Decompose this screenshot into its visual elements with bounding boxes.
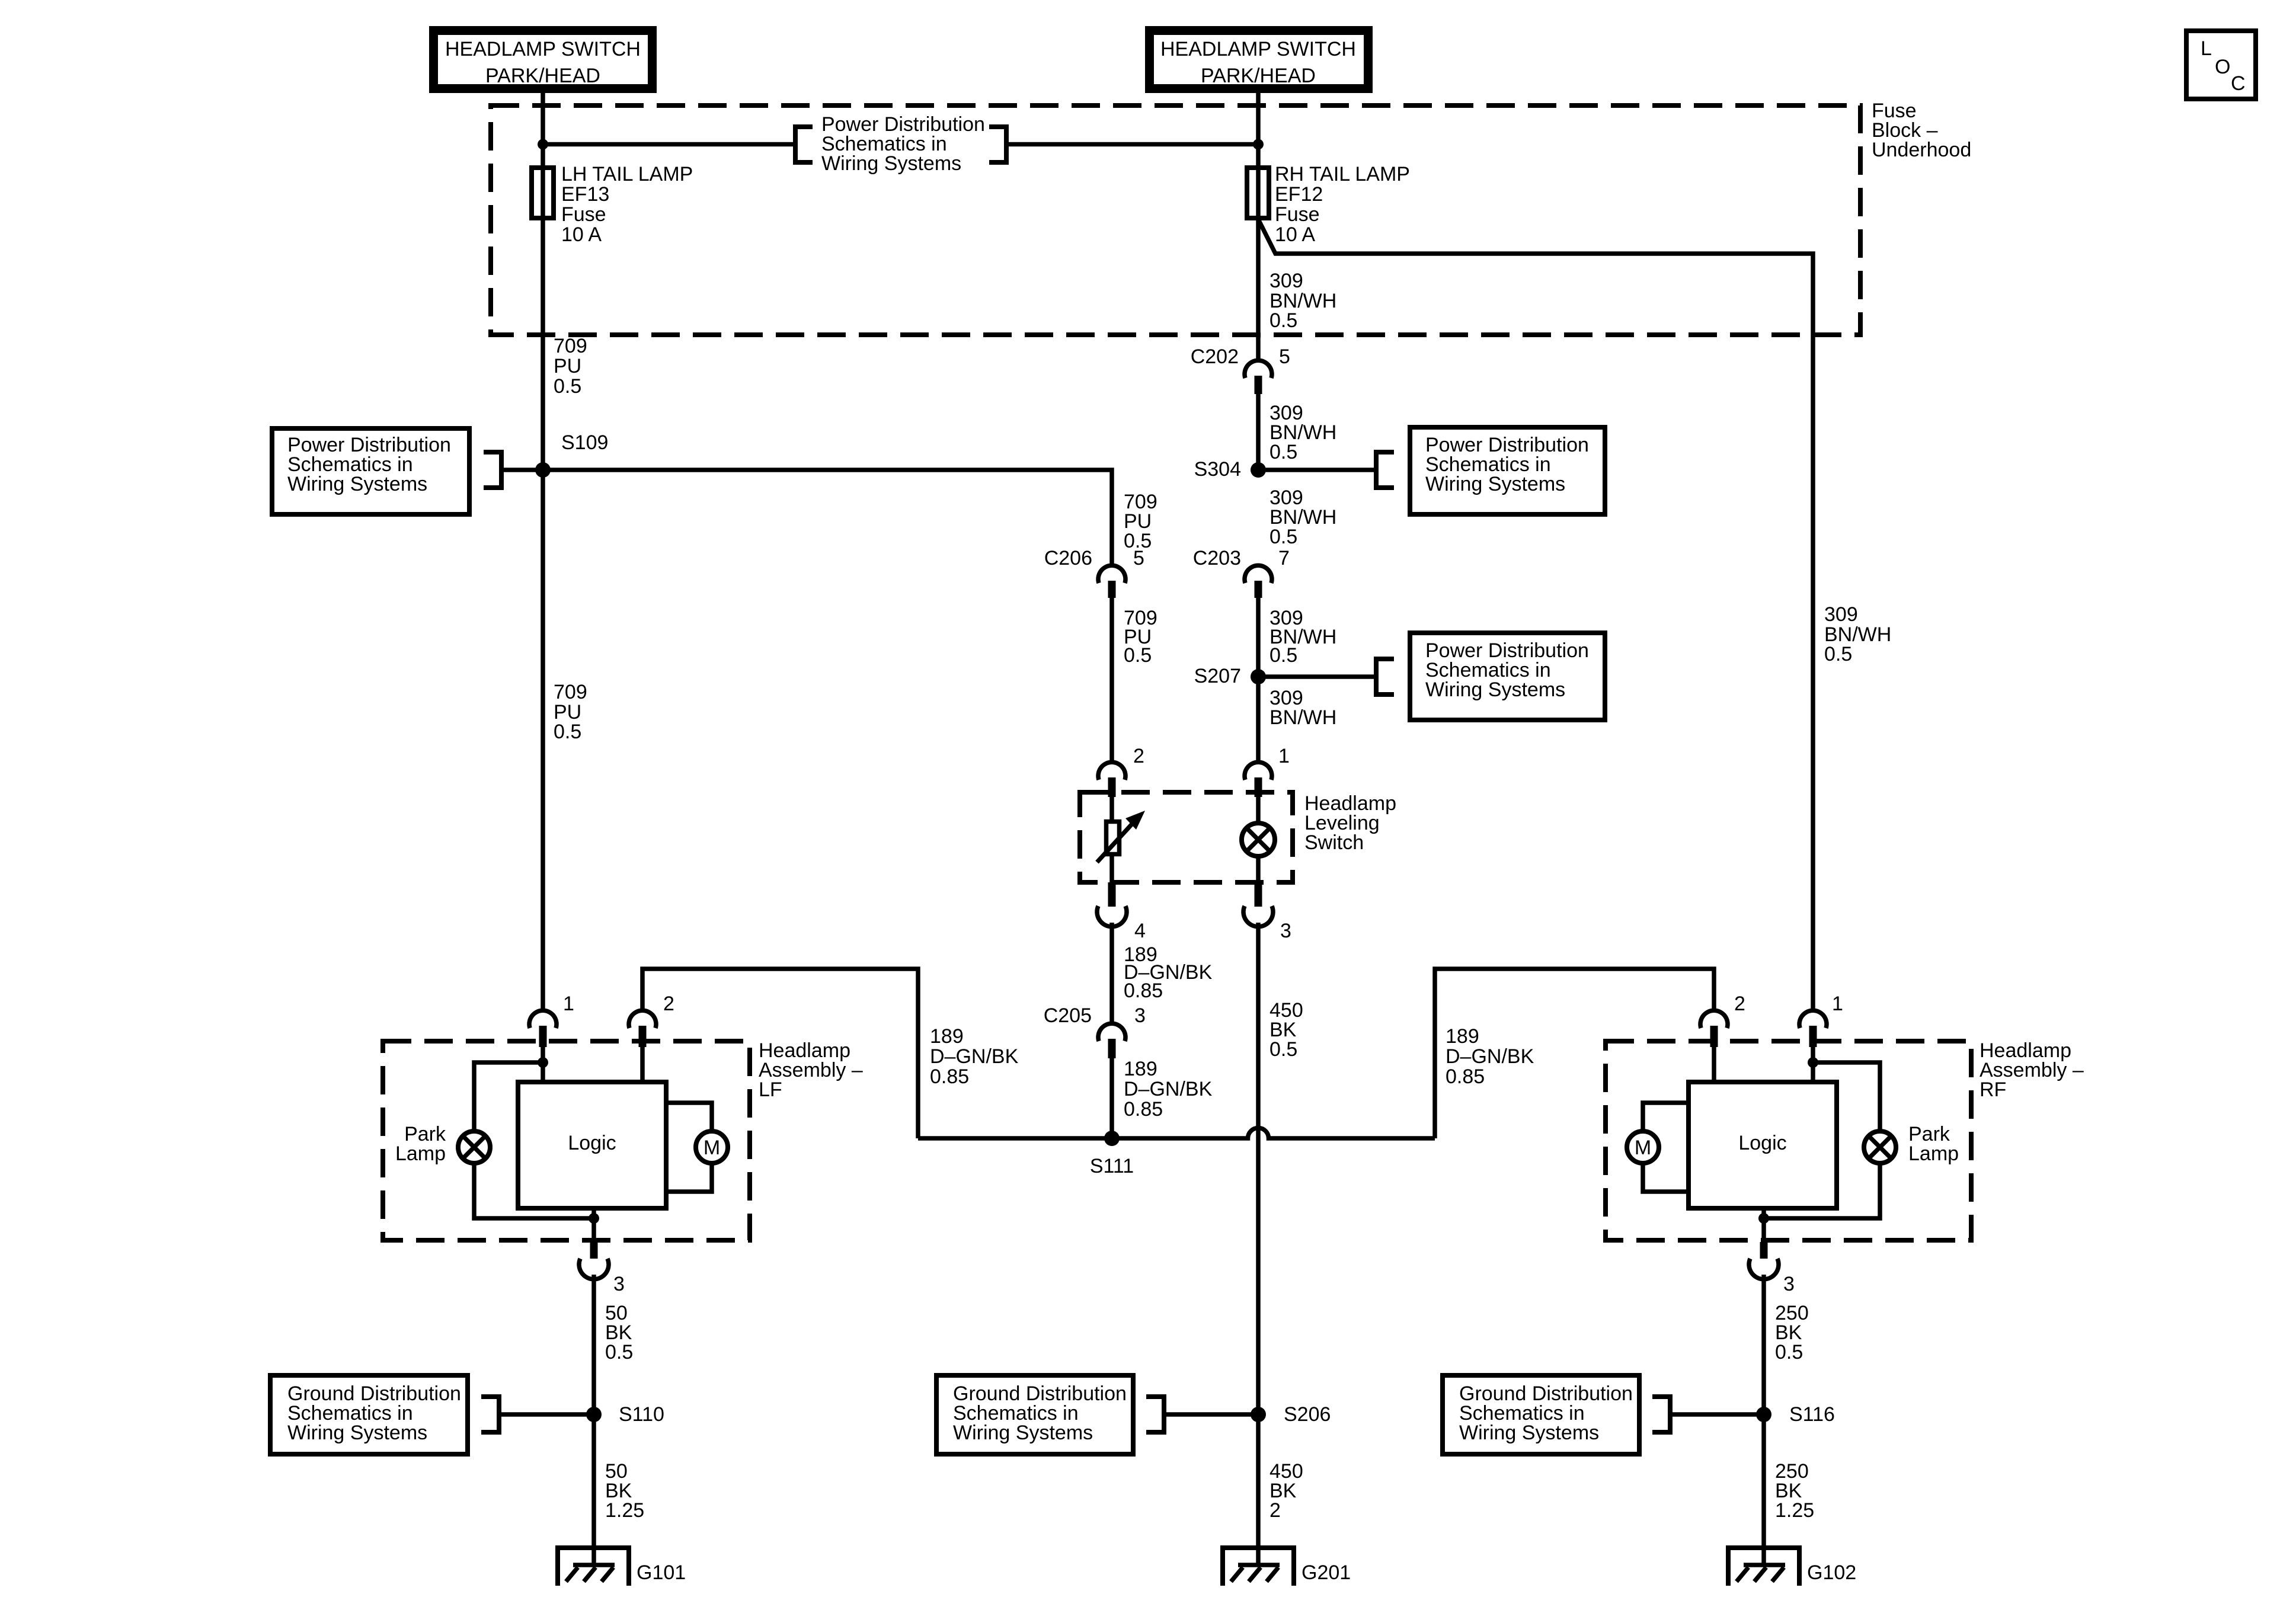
wire: middle feed from switch through fuse EF12 down to C202 xyxy=(1256,93,1261,361)
wire: park lamp LF to ground leg xyxy=(474,1163,594,1218)
box: Ground Distribution Schematics in Wiring Systems (S110) xyxy=(270,1375,468,1454)
svg-text:1: 1 xyxy=(1278,745,1290,767)
svg-text:5: 5 xyxy=(1279,345,1290,368)
box: Ground Distribution Schematics in Wiring Systems (S116) xyxy=(1443,1375,1639,1454)
svg-text:RF: RF xyxy=(1980,1078,2006,1101)
svg-text:1.25: 1.25 xyxy=(1775,1499,1814,1522)
svg-text:0.5: 0.5 xyxy=(1824,643,1852,665)
svg-text:LF: LF xyxy=(759,1078,782,1101)
wire: 309 BN/WH from C202 to S304 xyxy=(1256,394,1261,470)
svg-text:2: 2 xyxy=(1734,993,1745,1015)
fuse EF13 LH TAIL LAMP 10A xyxy=(532,168,554,218)
svg-text:Wiring Systems: Wiring Systems xyxy=(1425,678,1565,701)
svg-text:M: M xyxy=(703,1137,720,1159)
connector C206 pin 5 xyxy=(1044,547,1144,598)
box: Power Distribution Schematics in Wiring Systems (S207) xyxy=(1410,633,1605,720)
svg-text:0.5: 0.5 xyxy=(1124,644,1152,667)
svg-text:Lamp: Lamp xyxy=(395,1142,446,1165)
wire: 189 D-GN/BK from C205 to S111 xyxy=(1109,1058,1114,1138)
wire: S109 branch to C206 xyxy=(543,470,1112,565)
node: junction on left feed xyxy=(538,139,548,150)
bracket: S207 reference xyxy=(1376,657,1394,697)
label: circuit 250 BK 0.5 xyxy=(1775,1302,1809,1363)
label: circuit 50 BK 0.5 xyxy=(605,1302,633,1363)
box: HEADLAMP SWITCH PARK/HEAD (left) xyxy=(434,31,653,89)
svg-text:D–GN/BK: D–GN/BK xyxy=(1124,1078,1213,1100)
label: circuit 709 PU 0.5 (above C206) xyxy=(1124,491,1157,552)
svg-text:D–GN/BK: D–GN/BK xyxy=(930,1045,1019,1068)
svg-text:3: 3 xyxy=(613,1273,625,1295)
node: RF ground junction xyxy=(1758,1213,1769,1224)
svg-text:EF13: EF13 xyxy=(561,183,609,206)
label: circuit 250 BK 1.25 xyxy=(1775,1460,1814,1522)
svg-text:Wiring Systems: Wiring Systems xyxy=(821,152,961,175)
connector: leveling switch pin 1 xyxy=(1245,745,1290,797)
bracket: S110 reference xyxy=(481,1394,499,1435)
wire: left branch riser to headlamp LF pin 2 xyxy=(642,969,918,1138)
svg-text:C206: C206 xyxy=(1044,547,1092,569)
node: RF park lamp tap xyxy=(1808,1057,1818,1068)
connector: headlamp RF pin 2 xyxy=(1700,993,1745,1047)
svg-text:189: 189 xyxy=(1124,1058,1157,1080)
label: Headlamp Leveling Switch xyxy=(1304,792,1396,854)
svg-text:BN/WH: BN/WH xyxy=(1269,706,1336,729)
wire: S109 to Power Distribution reference (left) xyxy=(504,468,543,472)
label: circuit 709 PU 0.5 (below S109) xyxy=(554,681,587,743)
node: LF park lamp tap xyxy=(538,1057,548,1068)
svg-text:0.5: 0.5 xyxy=(1269,1038,1297,1061)
label: circuit 309 BN/WH (below S207) xyxy=(1269,687,1336,729)
wire: S207 to Power Distribution reference xyxy=(1258,674,1374,679)
svg-text:1: 1 xyxy=(563,993,574,1015)
svg-text:HEADLAMP SWITCH: HEADLAMP SWITCH xyxy=(445,38,641,60)
wire: S207 down to leveling switch pin 1 xyxy=(1256,677,1261,762)
label: Power Distribution Schematics in Wiring Systems (top) xyxy=(821,113,985,175)
svg-text:Underhood: Underhood xyxy=(1872,139,1971,161)
node S206 xyxy=(1251,1403,1331,1426)
connector C202 pin 5 xyxy=(1191,345,1290,394)
bracket: right of Power Distribution reference xyxy=(989,124,1006,165)
bracket: S304 reference xyxy=(1376,450,1394,490)
svg-text:S116: S116 xyxy=(1789,1403,1835,1426)
svg-text:HEADLAMP SWITCH: HEADLAMP SWITCH xyxy=(1160,38,1356,60)
svg-text:G201: G201 xyxy=(1302,1561,1351,1584)
svg-text:2: 2 xyxy=(1269,1499,1281,1522)
label: fuse EF12 xyxy=(1275,163,1410,246)
svg-text:10 A: 10 A xyxy=(561,223,602,246)
svg-text:0.85: 0.85 xyxy=(1124,1098,1163,1121)
wire: reference to S206 xyxy=(1166,1412,1258,1417)
node S111 xyxy=(1090,1131,1134,1177)
wire: right branch riser to headlamp RF pin 2 xyxy=(1435,969,1714,1138)
svg-text:D–GN/BK: D–GN/BK xyxy=(1446,1045,1534,1068)
label: circuit 309 BN/WH 0.5 (right branch) xyxy=(1824,603,1891,665)
svg-text:S110: S110 xyxy=(619,1403,664,1426)
wire: RF pin 2 into logic xyxy=(1712,1047,1716,1082)
wire: S110 to G101 xyxy=(591,1414,596,1565)
label: circuit 309 BN/WH 0.5 (below S304) xyxy=(1269,486,1336,548)
wire: 309 BN/WH from C203 to S207 xyxy=(1256,598,1261,677)
svg-text:709: 709 xyxy=(554,681,587,703)
wire: LF pin 1 into logic xyxy=(541,1047,545,1080)
label: circuit 309 BN/WH 0.5 (above S207) xyxy=(1269,607,1336,667)
box: Power Distribution Schematics in Wiring Systems (S304) xyxy=(1410,427,1605,514)
svg-text:S207: S207 xyxy=(1194,665,1241,687)
wire: 450 BK from pin 3 to S206 xyxy=(1256,923,1261,1414)
motor M (LF) xyxy=(669,1103,728,1192)
node: LF ground junction xyxy=(589,1213,599,1224)
bracket: S116 reference xyxy=(1652,1394,1670,1435)
box: LOC legend xyxy=(2186,31,2256,99)
svg-text:2: 2 xyxy=(663,993,674,1015)
label: Park Lamp (LF) xyxy=(395,1123,446,1165)
wire: LF pin 2 into logic xyxy=(640,1047,645,1080)
svg-text:0.5: 0.5 xyxy=(1269,309,1297,332)
wire: S304 to Power Distribution reference xyxy=(1258,468,1374,472)
svg-text:S111: S111 xyxy=(1090,1155,1134,1177)
fuse EF12 RH TAIL LAMP 10A xyxy=(1247,168,1269,218)
label: Park Lamp (RF) xyxy=(1908,1123,1959,1165)
label: Headlamp Assembly - LF xyxy=(759,1039,863,1101)
svg-text:S109: S109 xyxy=(561,431,608,454)
svg-text:RH TAIL LAMP: RH TAIL LAMP xyxy=(1275,163,1410,185)
wire: 250 BK from RF pin 3 to S116 xyxy=(1761,1275,1766,1414)
svg-text:EF12: EF12 xyxy=(1275,183,1323,206)
ground G101 xyxy=(558,1548,686,1586)
label: circuit 309 BN/WH 0.5 (below EF12) xyxy=(1269,270,1336,332)
svg-text:189: 189 xyxy=(1446,1025,1479,1048)
svg-text:C: C xyxy=(2231,72,2246,95)
connector: headlamp RF pin 1 xyxy=(1799,993,1843,1047)
label: fuse EF13 xyxy=(561,163,693,246)
svg-text:10 A: 10 A xyxy=(1275,223,1315,246)
node S109 xyxy=(535,431,608,478)
rheostat (leveling switch variable resistor) xyxy=(1097,797,1145,882)
label: circuit 309 BN/WH 0.5 (above S304) xyxy=(1269,402,1336,463)
label: circuit 189 D-GN/BK 0.85 (below C205) xyxy=(1124,1058,1213,1121)
svg-text:C203: C203 xyxy=(1193,547,1241,569)
node S207 xyxy=(1194,665,1266,687)
svg-text:0.5: 0.5 xyxy=(554,721,581,743)
box: Ground Distribution Schematics in Wiring Systems (S206) xyxy=(936,1375,1133,1454)
svg-text:0.85: 0.85 xyxy=(1446,1065,1485,1088)
svg-text:709: 709 xyxy=(554,335,587,357)
svg-text:0.5: 0.5 xyxy=(1269,644,1297,667)
svg-text:M: M xyxy=(1635,1137,1651,1159)
label: circuit 189 D-GN/BK 0.85 (above C205) xyxy=(1124,943,1213,1002)
svg-text:0.5: 0.5 xyxy=(1269,526,1297,548)
lamp: park lamp RF xyxy=(1864,1131,1896,1163)
svg-text:2: 2 xyxy=(1133,745,1144,767)
svg-text:Wiring Systems: Wiring Systems xyxy=(953,1422,1093,1444)
svg-text:Logic: Logic xyxy=(1738,1132,1786,1154)
box: Power Distribution Schematics in Wiring Systems (S109) xyxy=(272,428,469,514)
wire: park lamp RF to ground leg xyxy=(1764,1163,1880,1218)
svg-text:3: 3 xyxy=(1134,1004,1146,1027)
svg-text:0.5: 0.5 xyxy=(1269,441,1297,463)
connector: headlamp LF pin 3 xyxy=(579,1242,625,1295)
dashed box: Headlamp Leveling Switch xyxy=(1080,792,1293,882)
svg-text:0.5: 0.5 xyxy=(1775,1341,1803,1363)
label: circuit 450 BK 0.5 xyxy=(1269,999,1303,1061)
wire: left feed from switch through fuse EF13 down to headlamp LF pin 1 xyxy=(541,93,545,1011)
svg-text:0.85: 0.85 xyxy=(930,1065,969,1088)
wire: 50 BK from LF pin 3 to S110 xyxy=(591,1275,596,1414)
connector C205 pin 3 xyxy=(1044,1004,1146,1058)
svg-text:C205: C205 xyxy=(1044,1004,1092,1027)
label: Headlamp Assembly - RF xyxy=(1980,1039,2084,1101)
svg-text:4: 4 xyxy=(1134,920,1146,942)
dashed box: Fuse Block - Underhood xyxy=(491,105,1860,335)
svg-text:G102: G102 xyxy=(1807,1561,1856,1584)
bracket: left of Power Distribution reference xyxy=(795,124,813,165)
svg-text:O: O xyxy=(2215,56,2230,78)
svg-text:3: 3 xyxy=(1783,1273,1795,1295)
bracket: S206 reference xyxy=(1146,1394,1164,1435)
wire: 189 D-GN/BK from pin 4 to C205 xyxy=(1109,923,1114,1023)
svg-text:309: 309 xyxy=(1269,270,1303,292)
svg-text:5: 5 xyxy=(1133,547,1144,569)
node S116 xyxy=(1756,1403,1835,1426)
svg-text:Logic: Logic xyxy=(568,1132,616,1154)
wire: S116 to G102 xyxy=(1761,1414,1766,1565)
ground G201 xyxy=(1223,1548,1351,1586)
svg-text:LH TAIL LAMP: LH TAIL LAMP xyxy=(561,163,693,185)
label: circuit 709 PU 0.5 (below C206) xyxy=(1124,607,1157,667)
box: HEADLAMP SWITCH PARK/HEAD (middle) xyxy=(1150,31,1368,89)
dashed box: Headlamp Assembly - RF xyxy=(1606,1041,1971,1240)
lamp: leveling switch indicator xyxy=(1242,797,1275,882)
svg-text:C202: C202 xyxy=(1191,345,1239,368)
lamp: park lamp LF xyxy=(458,1131,490,1163)
wire: 709 PU from C206 to leveling switch pin 2 xyxy=(1109,598,1114,762)
svg-text:309: 309 xyxy=(1824,603,1858,626)
svg-text:L: L xyxy=(2201,37,2212,60)
svg-text:0.85: 0.85 xyxy=(1124,980,1163,1002)
box: Logic (RF) xyxy=(1689,1082,1837,1208)
svg-text:189: 189 xyxy=(930,1025,964,1048)
connector: headlamp LF pin 2 xyxy=(629,993,674,1047)
wire: tap to park lamp RF xyxy=(1813,1062,1880,1131)
label: circuit 709 PU 0.5 (below EF13) xyxy=(554,335,587,398)
svg-text:G101: G101 xyxy=(637,1561,686,1584)
wire: tap to park lamp LF xyxy=(474,1062,543,1131)
wire: reference to S110 xyxy=(501,1412,594,1417)
wire: S111 horizontal run with hop over 450 BK xyxy=(918,1128,1435,1139)
wire: link from Power Distribution reference to middle feed (right segment) xyxy=(1009,142,1258,147)
connector: leveling switch pin 2 xyxy=(1098,745,1144,797)
label: circuit 450 BK 2 xyxy=(1269,1460,1303,1522)
wire: logic RF ground lead xyxy=(1761,1211,1766,1242)
svg-text:PARK/HEAD: PARK/HEAD xyxy=(485,65,600,87)
svg-text:S304: S304 xyxy=(1194,458,1241,481)
label: circuit 189 D-GN/BK 0.85 (right branch) xyxy=(1446,1025,1534,1088)
svg-text:S206: S206 xyxy=(1284,1403,1331,1426)
svg-text:7: 7 xyxy=(1278,547,1290,569)
label: Fuse Block - Underhood xyxy=(1872,100,1971,161)
wire: link from left feed to Power Distribution reference (left segment) xyxy=(543,142,793,147)
svg-text:Wiring Systems: Wiring Systems xyxy=(287,473,427,495)
svg-text:1.25: 1.25 xyxy=(605,1499,644,1522)
svg-text:Wiring Systems: Wiring Systems xyxy=(1459,1422,1599,1444)
wire: logic LF ground lead xyxy=(591,1211,596,1242)
node S304 xyxy=(1194,458,1266,481)
svg-text:1: 1 xyxy=(1832,993,1843,1015)
label: circuit 189 D-GN/BK 0.85 (left branch) xyxy=(930,1025,1019,1088)
motor M (RF) xyxy=(1627,1103,1689,1192)
ground G102 xyxy=(1728,1548,1856,1586)
bracket: S109 reference xyxy=(484,450,501,490)
wire: 309 BN/WH branch from EF12 to headlamp RF pin 1 xyxy=(1258,219,1813,1011)
svg-text:Fuse: Fuse xyxy=(1275,203,1320,226)
connector C203 pin 7 xyxy=(1193,547,1290,598)
wire: reference to S116 xyxy=(1673,1412,1764,1417)
connector: headlamp LF pin 1 xyxy=(529,993,574,1047)
svg-text:0.5: 0.5 xyxy=(554,375,581,398)
connector: headlamp RF pin 3 xyxy=(1749,1242,1795,1295)
svg-text:PU: PU xyxy=(554,355,581,377)
connector: leveling switch pin 3 xyxy=(1243,882,1291,942)
box: Logic (LF) xyxy=(518,1082,666,1208)
svg-text:Wiring Systems: Wiring Systems xyxy=(1425,473,1565,495)
svg-text:3: 3 xyxy=(1280,920,1291,942)
wire: S206 to G201 xyxy=(1256,1414,1261,1565)
dashed box: Headlamp Assembly - LF xyxy=(383,1041,750,1240)
node: junction on middle feed xyxy=(1253,139,1264,150)
label: circuit 50 BK 1.25 xyxy=(605,1460,644,1522)
node S110 xyxy=(586,1403,664,1426)
svg-text:Lamp: Lamp xyxy=(1908,1142,1959,1165)
svg-text:PARK/HEAD: PARK/HEAD xyxy=(1201,65,1316,87)
connector: leveling switch pin 4 xyxy=(1097,882,1146,942)
wire: RF pin 1 into logic xyxy=(1811,1047,1815,1082)
svg-text:Switch: Switch xyxy=(1304,831,1364,854)
svg-text:Fuse: Fuse xyxy=(561,203,606,226)
svg-text:Wiring Systems: Wiring Systems xyxy=(287,1422,427,1444)
svg-text:0.5: 0.5 xyxy=(605,1341,633,1363)
